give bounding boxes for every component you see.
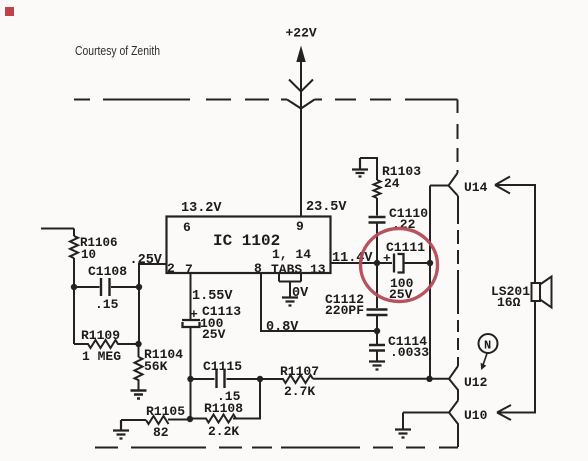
voltage label 11.4V [332, 251, 373, 266]
svg-text:11.4V: 11.4V [332, 251, 373, 266]
C1110 label [389, 206, 428, 221]
wire: R1103 bottom lead to C1110 [376, 198, 378, 216]
LS201 label [491, 284, 530, 299]
svg-text:R1108: R1108 [204, 401, 243, 416]
ground under R1104 [131, 391, 147, 399]
ground under C1114 [369, 362, 385, 370]
wire: C1115 right lead [227, 378, 261, 380]
top boundary chevron at +22V entry [287, 100, 315, 109]
wire: right rail U14 to U12 [429, 186, 431, 379]
voltage label 13.2V [181, 201, 222, 216]
resistor R1107 [260, 375, 313, 383]
wire: mid rail C1108 to R1109 node [138, 287, 140, 344]
+22V arrow (filled head) [296, 46, 305, 63]
speaker LS201 [532, 277, 552, 308]
ground above R1103 [352, 158, 368, 177]
R1103 value 24 [384, 176, 400, 191]
node: pin8/C1112/C1114 junction [374, 328, 380, 334]
svg-text:1.55V: 1.55V [192, 289, 233, 304]
node: C1108 left junction [71, 284, 77, 290]
C1108 label [88, 264, 127, 279]
resistor R1106 [70, 236, 78, 258]
node: C1115/R1107 junction [257, 376, 263, 382]
C1113 value 100 [200, 316, 224, 331]
capacitor C1111 plus sign [383, 251, 391, 266]
svg-text:23.5V: 23.5V [306, 200, 347, 215]
node: C1115 left junction [187, 376, 193, 382]
wire: C1112 bottom lead [376, 316, 378, 331]
svg-text:2.7K: 2.7K [284, 384, 315, 399]
capacitor C1110 [369, 217, 386, 223]
svg-text:C1108: C1108 [88, 264, 127, 279]
speaker top wire arrow (to U14) [495, 177, 510, 194]
R1103 label [382, 164, 421, 179]
R1106 value 10 [81, 248, 96, 262]
svg-text:C1111: C1111 [386, 240, 425, 255]
capacitor C1113 (electrolytic) [182, 320, 200, 327]
voltage label 23.5V [306, 200, 347, 215]
R1109 value 1 MEG [82, 349, 121, 364]
svg-text:0.8V: 0.8V [266, 320, 299, 335]
capacitor C1108 [101, 278, 110, 296]
C1111 label [386, 240, 425, 255]
svg-text:9: 9 [296, 219, 304, 234]
wire: left rail top [73, 229, 75, 237]
svg-text:N: N [484, 339, 491, 353]
svg-text:1 MEG: 1 MEG [82, 349, 121, 364]
node: R1107/C1112 rail junction [426, 376, 432, 382]
C1114 value .0033 [390, 345, 429, 360]
svg-text:7: 7 [185, 262, 193, 277]
resistor R1103 [374, 180, 381, 198]
resistor R1104 [135, 357, 143, 390]
+22V connector chevron [289, 80, 313, 92]
wire: C1112 top lead [376, 263, 378, 308]
wire: R1105 right lead [168, 419, 190, 421]
svg-text:82: 82 [153, 425, 169, 440]
wire: R1104 top lead [138, 344, 140, 357]
node: R1109/R1104 junction [135, 341, 141, 347]
wire: pin 8 drop and 0.8V run [261, 273, 377, 331]
node N circle [479, 334, 498, 353]
C1115 value .15 [217, 389, 241, 404]
wire: C1108 left lead [74, 286, 100, 288]
pin 6 [183, 220, 191, 235]
right boundary dashed (top, to U14) [457, 100, 459, 174]
R1107 value 2.7K [284, 384, 315, 399]
speaker bottom wire arrow (to U10) [497, 405, 511, 420]
TABS bracket to ground [279, 273, 301, 297]
capacitor C1111 (electrolytic) [394, 254, 404, 273]
voltage label .25V [130, 253, 163, 268]
svg-text:0V: 0V [292, 286, 309, 301]
wire: C1108 right lead [111, 286, 139, 288]
C1112 value 220PF [325, 303, 364, 318]
capacitor C1115 [217, 370, 225, 388]
R1105 value 82 [153, 425, 169, 440]
C1111 value 25V [389, 287, 413, 302]
C1114 label [388, 334, 427, 349]
svg-text:R1105: R1105 [146, 404, 185, 419]
svg-text:.0033: .0033 [390, 345, 429, 360]
svg-text:.25V: .25V [130, 253, 163, 268]
R1106 label [80, 236, 118, 250]
svg-text:R1109: R1109 [81, 328, 120, 343]
pin 9 [296, 219, 304, 234]
wire: C1114 top lead [376, 331, 378, 344]
pins TABS 13 [271, 262, 326, 277]
voltage label 1.55V [192, 289, 233, 304]
wire: pin 2 lead with .25V rail corner [139, 264, 166, 287]
resistor R1109 [74, 340, 138, 348]
bottom boundary dashed line [95, 447, 458, 449]
pins 1, 14 [272, 247, 311, 262]
R1108 value 2.2K [208, 424, 239, 439]
wire: U10 ground stub [402, 413, 404, 430]
svg-text:IC 1102: IC 1102 [213, 232, 280, 250]
wire: left rail R1106 to C1108 node [73, 258, 75, 287]
title: Courtesy of Zenith [75, 44, 160, 58]
svg-text:56K: 56K [144, 359, 168, 374]
svg-text:2: 2 [167, 261, 175, 276]
wire: pin 7 rail C1113 to C1115 node [190, 327, 192, 379]
IC name label IC 1102 [213, 232, 280, 250]
input wire (left, open end) [41, 228, 74, 230]
LS201 value 16Ω [497, 295, 521, 310]
capacitor C1112 [367, 310, 388, 316]
wire: R1107 right lead to U12 connector [313, 378, 449, 380]
node: 11.4V / C1111 left junction [374, 260, 380, 266]
voltage label 0V [292, 286, 309, 301]
red marker square top-left [5, 7, 14, 16]
wire: R1103 top lead [360, 158, 377, 180]
U12 label [464, 375, 488, 390]
svg-text:13.2V: 13.2V [181, 201, 222, 216]
capacitor C1113 plus sign [190, 307, 198, 322]
svg-text:R1107: R1107 [280, 364, 319, 379]
node N pointer arrow [481, 354, 487, 371]
wire: pin 7 rail C1115 node to R1108 node [190, 379, 192, 419]
+22V supply wire (shaft down to IC pin 9) [300, 58, 302, 216]
svg-text:2.2K: 2.2K [208, 424, 239, 439]
wire: C1110 to 11.4V node [376, 224, 378, 264]
voltage label 0.8V [266, 320, 299, 335]
pin 7 [185, 262, 193, 277]
wire: U14 connector lead [430, 185, 449, 187]
red highlight circle around C1111 [361, 229, 438, 302]
node: C1111 right junction [427, 260, 433, 266]
wire: R1108 right lead up to C1115 node [233, 379, 260, 419]
svg-text:Courtesy of Zenith: Courtesy of Zenith [75, 44, 160, 58]
wire: U10 lead to ground [403, 412, 449, 414]
top boundary dashed line (left of +22V entry) [74, 99, 287, 101]
wire: C1111 left lead [377, 262, 392, 264]
U10 connector chevron [449, 401, 458, 448]
svg-text:U10: U10 [464, 408, 488, 423]
C1110 value .22 [392, 217, 416, 232]
U12 connector chevron [449, 366, 458, 401]
wire: pin 13 lead (11.4V) [331, 262, 377, 264]
svg-text:1, 14: 1, 14 [272, 247, 311, 262]
C1112 label [325, 292, 364, 307]
svg-text:24: 24 [384, 176, 400, 191]
svg-text:C1115: C1115 [203, 359, 242, 374]
svg-text:+22V: +22V [286, 26, 317, 41]
U14 connector chevron [449, 173, 459, 196]
pin 2 [167, 261, 175, 276]
C1115 label [203, 359, 242, 374]
svg-text:220PF: 220PF [325, 303, 364, 318]
right boundary dashed (U14 to U12) [457, 196, 459, 366]
C1113 value 25V [202, 327, 226, 342]
ground under TABS [282, 298, 298, 306]
C1113 label [202, 304, 241, 319]
R1109 label [81, 328, 120, 343]
wire: C1115 left lead [191, 378, 215, 380]
C1111 value 100 [390, 276, 414, 291]
wire: R1105 left lead [121, 419, 146, 421]
ground left of R1105 [113, 420, 129, 439]
U10 label [464, 408, 488, 423]
R1107 label [280, 364, 319, 379]
svg-text:10: 10 [81, 248, 96, 262]
wire: C1111 right lead [404, 262, 431, 264]
node: R1105/R1108 junction [187, 416, 193, 422]
capacitor C1114 [369, 345, 385, 351]
top boundary dashed line (right of +22V entry) [315, 99, 458, 101]
+22V label [286, 26, 317, 41]
wire: speaker bottom lead [499, 301, 535, 413]
R1104 label [144, 347, 183, 362]
svg-text:16Ω: 16Ω [497, 295, 521, 310]
R1105 label [146, 404, 185, 419]
svg-text:U14: U14 [464, 180, 488, 195]
wire: left rail down to R1109 [73, 287, 75, 344]
node: C1108 right junction [136, 284, 142, 290]
svg-text:6: 6 [183, 220, 191, 235]
wire: C1114 bottom lead [376, 352, 378, 362]
R1108 label [204, 401, 243, 416]
U14 label [464, 180, 488, 195]
resistor R1105 [146, 416, 169, 424]
ground on U10 lead [395, 430, 411, 438]
wire: pin 7 rail down to C1113 [190, 273, 192, 319]
R1104 value 56K [144, 359, 168, 374]
svg-text:.15: .15 [95, 297, 119, 312]
wire: speaker top lead [495, 185, 535, 283]
node N letter [484, 339, 491, 353]
C1108 value .15 [95, 297, 119, 312]
pin 8 [254, 261, 262, 276]
IC U1102 body [167, 217, 331, 274]
resistor R1108 [190, 415, 236, 423]
svg-text:U12: U12 [464, 375, 488, 390]
svg-text:25V: 25V [202, 327, 226, 342]
